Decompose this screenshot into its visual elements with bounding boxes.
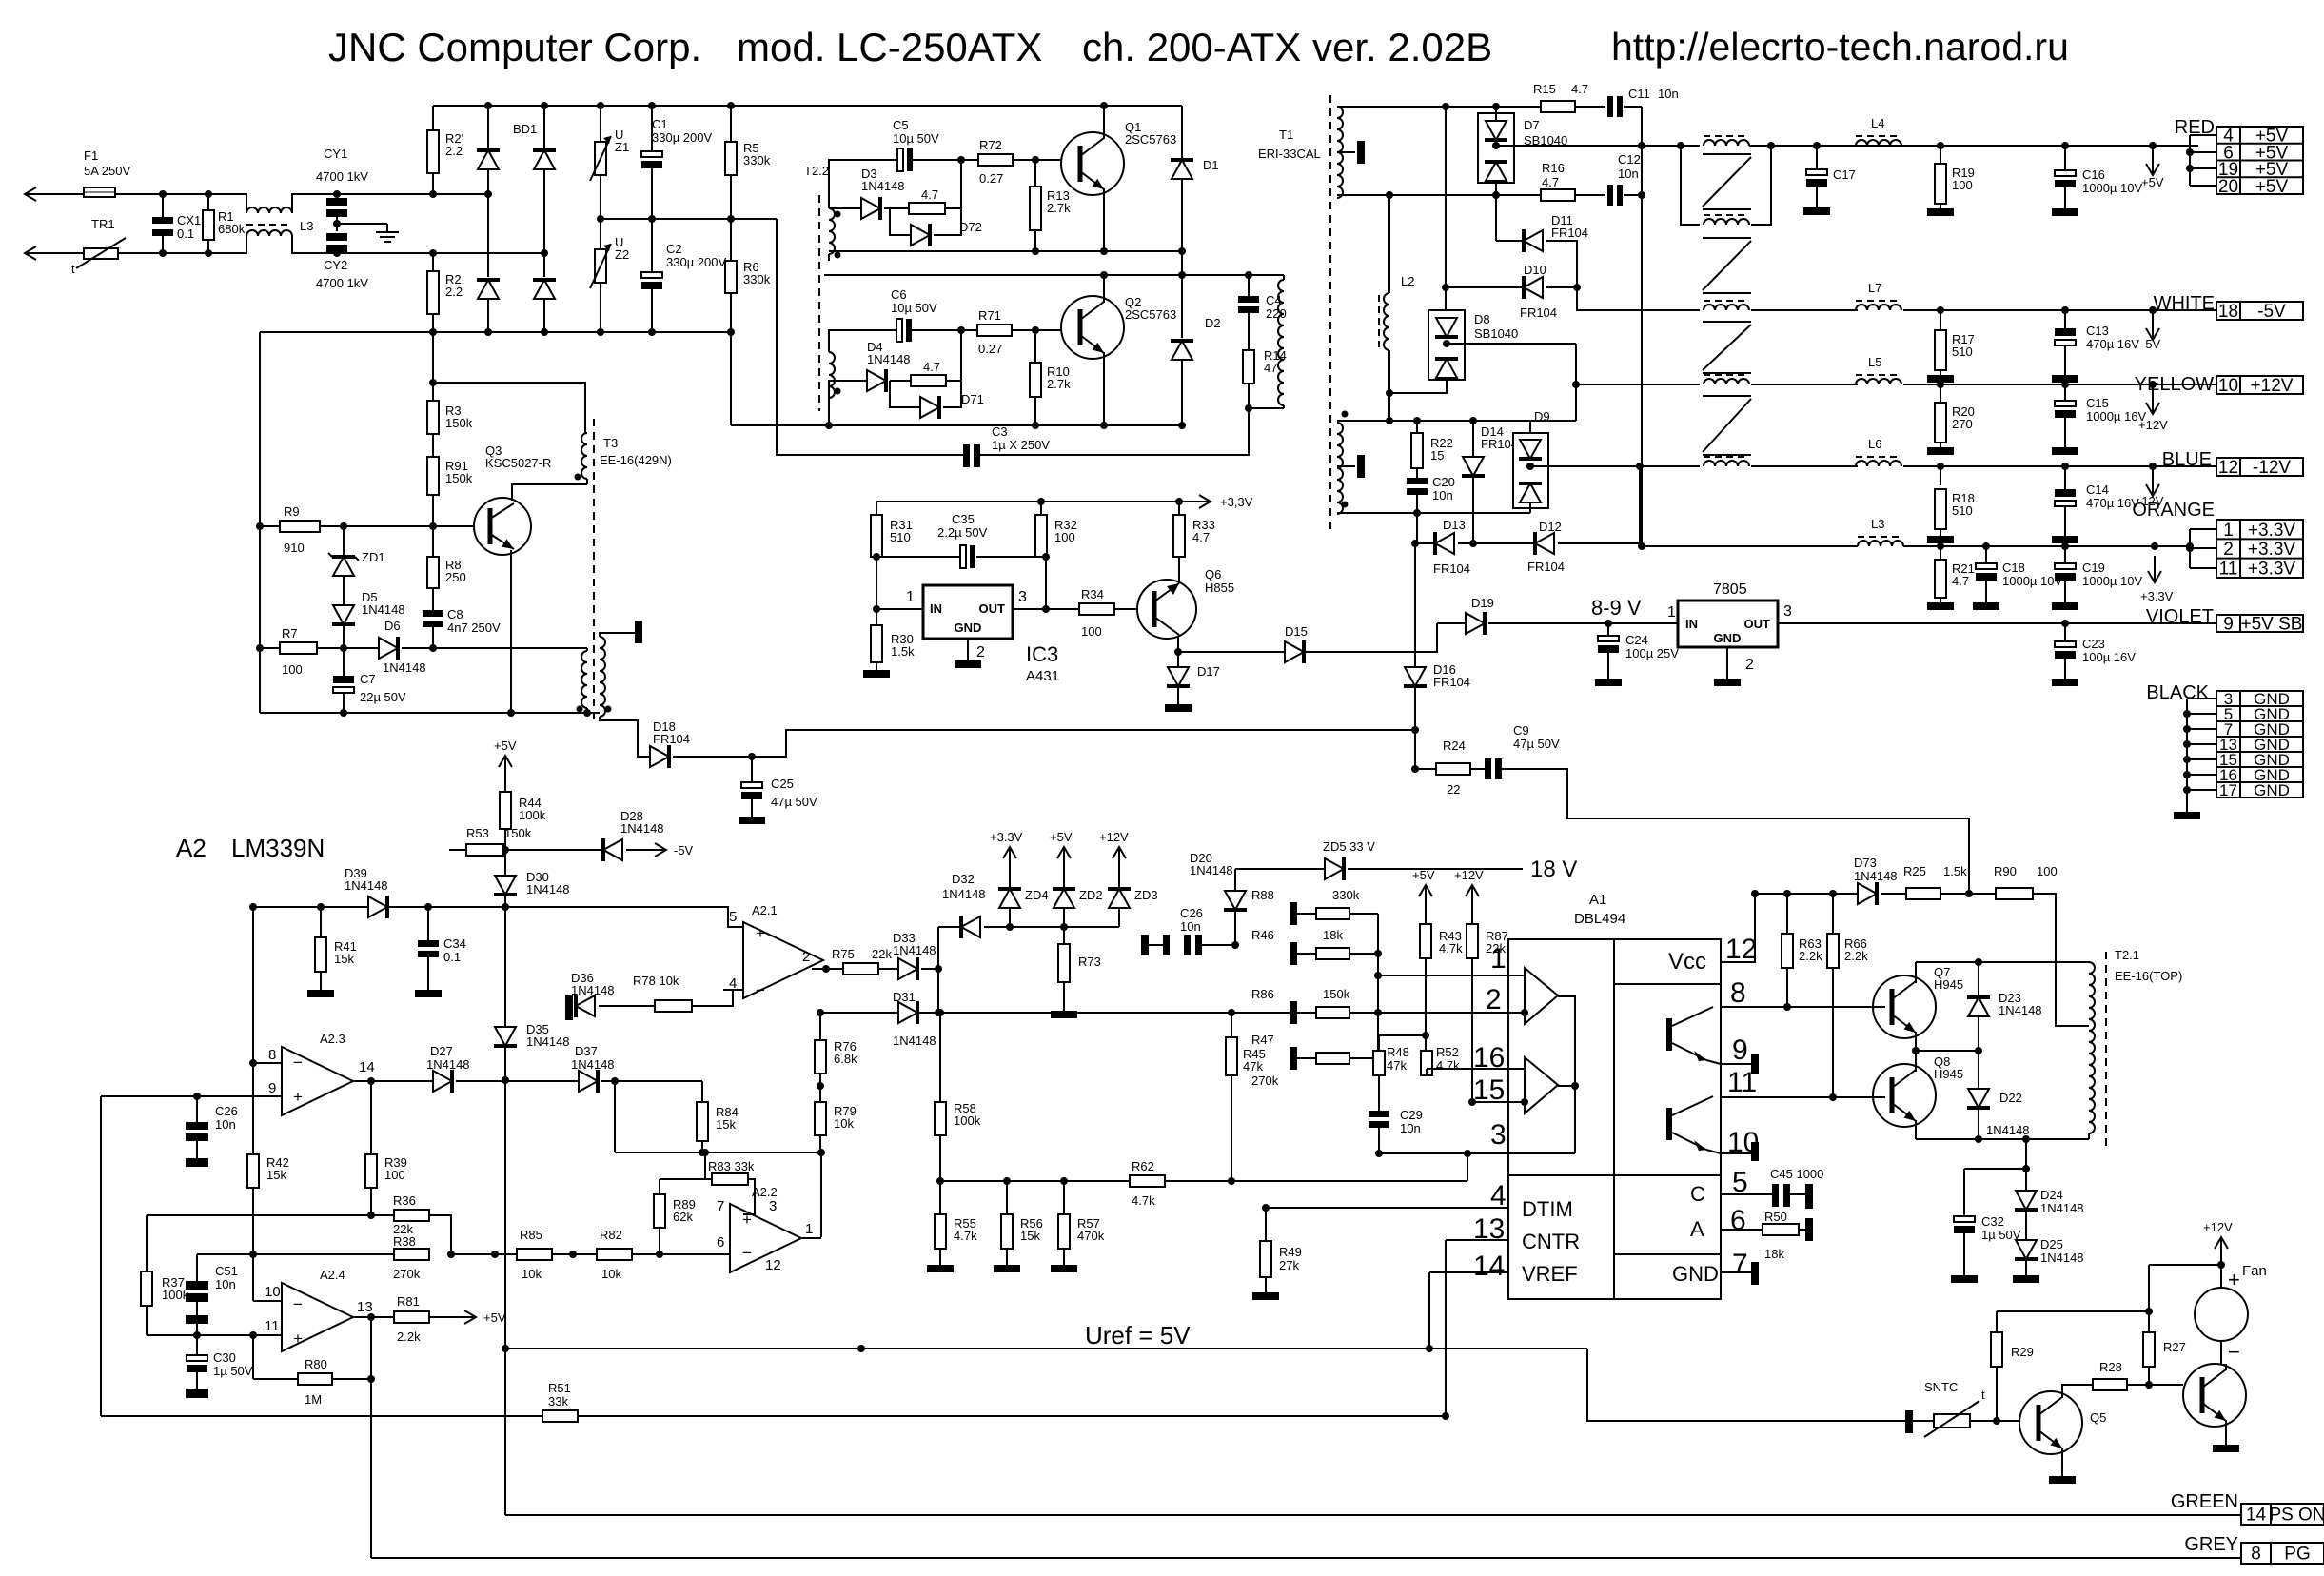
label C2 value xyxy=(666,255,726,269)
fuse F1 xyxy=(84,187,115,197)
wire L2 to D8 xyxy=(1389,380,1447,393)
label C4 xyxy=(1266,293,1282,307)
diode D17 xyxy=(1167,667,1190,686)
terminal bar T1 sec bar xyxy=(1357,141,1365,164)
label C20 value xyxy=(1432,488,1453,502)
resistor R7 xyxy=(280,642,317,654)
svg-text:18: 18 xyxy=(2218,302,2238,322)
svg-text:3: 3 xyxy=(1018,589,1027,605)
label Q1 xyxy=(1125,120,1176,147)
junction bottom bus x513 xyxy=(484,328,492,336)
resistor R30 xyxy=(871,625,882,662)
wire D4 line xyxy=(834,380,867,382)
resistor R83 xyxy=(712,1173,748,1185)
wire C30 top xyxy=(196,1335,198,1355)
label A2.1 pin2 xyxy=(802,949,810,965)
svg-text:1N4148: 1N4148 xyxy=(893,943,936,957)
label IC3 type xyxy=(1026,668,1059,684)
resistor R72 xyxy=(978,154,1013,166)
wire cmp2 in16 stub xyxy=(1508,1068,1525,1070)
resistor R25 xyxy=(1906,888,1940,899)
svg-text:R38: R38 xyxy=(393,1234,416,1249)
label A1 pin 9 xyxy=(1732,1034,1748,1066)
wire R10 bottom xyxy=(1034,397,1036,425)
wire R73 gnd xyxy=(1063,982,1065,1011)
label D18 xyxy=(653,719,690,746)
zener ZD1 tick xyxy=(328,553,359,561)
wire BD1 L mid xyxy=(487,169,489,277)
wire Q9 collector xyxy=(2221,1365,2226,1370)
wire R47 in xyxy=(1297,1057,1316,1059)
label R53 xyxy=(466,826,489,840)
wire R56 top xyxy=(1006,1181,1008,1214)
wire D8 to +12 rail xyxy=(1575,344,1577,421)
junction C7 bottom xyxy=(340,709,347,717)
label C18 xyxy=(2002,561,2025,575)
wire C14 stub xyxy=(2064,466,2066,489)
wire T2.2 lower to bottom xyxy=(828,398,830,425)
diode D24 xyxy=(2015,1191,2038,1210)
resistor R22 xyxy=(1411,433,1423,468)
wire T1 bottom lead xyxy=(1249,407,1284,409)
wire PG line xyxy=(371,1557,2241,1559)
svg-text:D13: D13 xyxy=(1443,518,1466,532)
wire conn bus 3.3 xyxy=(2189,529,2191,568)
svg-text:2.2µ 50V: 2.2µ 50V xyxy=(937,525,988,540)
svg-text:GND: GND xyxy=(1714,631,1742,645)
svg-text:A: A xyxy=(1690,1217,1704,1241)
svg-text:47k: 47k xyxy=(1243,1059,1263,1074)
svg-text:2.2: 2.2 xyxy=(445,285,463,299)
svg-text:14: 14 xyxy=(359,1059,375,1075)
junction R1 bottom xyxy=(205,249,212,257)
wire R2 top xyxy=(432,253,434,271)
junction R83 left xyxy=(701,1149,709,1156)
svg-text:270k: 270k xyxy=(393,1267,421,1281)
resistor R43 xyxy=(1420,924,1431,958)
svg-text:Vcc: Vcc xyxy=(1668,949,1706,975)
wire C15 gnd stub xyxy=(2064,418,2066,447)
junction Uref 905 xyxy=(857,1345,865,1352)
svg-text:R71: R71 xyxy=(978,308,1001,323)
junction drive R10 xyxy=(1032,422,1039,429)
svg-text:+3.3V: +3.3V xyxy=(2248,559,2296,579)
svg-text:1N4148: 1N4148 xyxy=(526,882,570,896)
inductor toroid W4 xyxy=(1704,375,1749,384)
junction D10 right xyxy=(1573,284,1581,291)
resistor R78 xyxy=(655,1000,692,1012)
wire L2 to winding xyxy=(1388,393,1390,421)
wire C19 gnd stub xyxy=(2064,581,2066,602)
label R45 xyxy=(1243,1047,1266,1074)
wire R7 left xyxy=(260,647,280,649)
label D37 xyxy=(575,1044,598,1058)
label R82 value xyxy=(601,1267,621,1281)
svg-text:510: 510 xyxy=(1952,345,1973,359)
polarity dot T2.2 b xyxy=(835,252,841,259)
wire R2' bottom xyxy=(432,173,434,194)
wire 1725 vertical xyxy=(1641,107,1643,546)
label D22 type xyxy=(1986,1123,2030,1137)
wire T3 right bottom xyxy=(600,717,650,757)
wire D22 bottom xyxy=(1978,1108,1979,1139)
wire R27 vert xyxy=(2148,1265,2150,1332)
wire R62 up xyxy=(1467,1153,1468,1181)
svg-text:R29: R29 xyxy=(2011,1345,2034,1359)
wire D2 bottom xyxy=(1181,360,1183,425)
wire R89 top xyxy=(659,1179,660,1194)
diode D10 xyxy=(1524,276,1543,299)
label R56 xyxy=(1020,1216,1043,1243)
label R78 xyxy=(633,974,679,988)
svg-text:270: 270 xyxy=(1952,417,1973,431)
wire C1 top xyxy=(651,106,653,151)
svg-text:L5: L5 xyxy=(1868,355,1881,369)
label A2.4 pin11 xyxy=(265,1318,280,1334)
label C13 xyxy=(2086,324,2109,338)
wire R30 bottom xyxy=(876,662,877,670)
wire sec top line xyxy=(1337,106,1605,108)
label A2.3 pin14 xyxy=(359,1059,375,1075)
label R79 xyxy=(834,1104,857,1131)
wire R46 in xyxy=(1297,953,1316,955)
junction R39 R36 xyxy=(367,1212,375,1219)
svg-text:1: 1 xyxy=(805,1221,813,1237)
svg-text:H855: H855 xyxy=(1205,581,1234,595)
junction 585 right xyxy=(1042,553,1050,561)
svg-text:R47: R47 xyxy=(1251,1033,1274,1047)
wire R88 out xyxy=(1349,913,1378,915)
junction A2.4 out xyxy=(367,1313,375,1321)
label R71 xyxy=(978,308,1002,356)
core dashed T1 core xyxy=(1329,95,1331,533)
svg-text:D9: D9 xyxy=(1534,409,1550,424)
svg-text:100: 100 xyxy=(1081,624,1102,639)
wire +5 after L4 xyxy=(1903,145,2190,147)
wire R75 D33 xyxy=(878,968,898,970)
svg-text:T2.2: T2.2 xyxy=(804,164,829,178)
wire D9 out -12 rail xyxy=(1530,465,1700,467)
junction C19 xyxy=(2061,542,2069,550)
label C19 value xyxy=(2082,574,2142,588)
wire D37 out xyxy=(601,1080,702,1082)
svg-text:ERI-33CAL: ERI-33CAL xyxy=(1258,147,1321,161)
junction 646 1136 xyxy=(611,1077,619,1085)
svg-text:OUT: OUT xyxy=(1744,617,1771,631)
svg-text:SB1040: SB1040 xyxy=(1474,326,1518,341)
svg-text:t: t xyxy=(1981,1388,1985,1402)
wire D1 top xyxy=(1181,106,1183,160)
label C16 value xyxy=(2082,181,2142,195)
svg-text:510: 510 xyxy=(890,530,911,544)
wire D4 to 4.7 xyxy=(890,380,911,382)
label YELLOW xyxy=(2135,374,2214,395)
resistor R55 xyxy=(935,1214,946,1249)
svg-text:0.1: 0.1 xyxy=(177,227,194,241)
svg-text:PS ON: PS ON xyxy=(2269,1506,2324,1526)
label C35 value xyxy=(937,525,988,540)
svg-text:330k: 330k xyxy=(1332,888,1360,902)
svg-text:+5V: +5V xyxy=(1412,868,1435,882)
svg-text:1N4148: 1N4148 xyxy=(1190,863,1233,877)
junction D5 bottom xyxy=(340,644,347,652)
junction 1725 574 xyxy=(1638,542,1645,550)
wire CX1 to R1 top xyxy=(163,193,208,195)
wire gnd stub 2 xyxy=(2187,728,2216,730)
ground C23 ground xyxy=(2052,679,2078,686)
junction R63 top939 xyxy=(1783,890,1791,897)
label D31 xyxy=(893,990,916,1004)
label TR1 xyxy=(91,217,115,231)
junction L2 wind xyxy=(1386,417,1393,424)
wire fan horiz2 xyxy=(1997,1310,2149,1312)
label A2.2 pin12 xyxy=(765,1257,781,1273)
wire R80 line xyxy=(253,1378,298,1380)
wire R5 bottom xyxy=(730,175,732,219)
resistor R44 xyxy=(500,792,511,829)
junction bottom bus x631 xyxy=(597,328,604,336)
wire +12 after L5 xyxy=(1903,384,2216,385)
diode diode BD1c xyxy=(477,280,500,299)
resistor R46 xyxy=(1316,948,1349,959)
svg-text:22µ 50V: 22µ 50V xyxy=(360,690,406,704)
svg-text:47: 47 xyxy=(1264,361,1277,375)
wire +5 rail b xyxy=(1749,145,2198,147)
diode D18 xyxy=(650,745,669,768)
junction drive T22 xyxy=(825,422,833,429)
wire cmp2 in15 stub xyxy=(1508,1101,1525,1103)
label R9 xyxy=(284,504,305,555)
resistor R18 xyxy=(1935,489,1946,529)
label T3 xyxy=(603,436,618,450)
resistor R6 xyxy=(725,261,737,293)
wire C15 stub xyxy=(2064,384,2066,401)
resistor R80 xyxy=(298,1373,332,1385)
connector +5VSB output xyxy=(2216,615,2303,635)
inductor L3 out xyxy=(1858,537,1903,546)
svg-text:TR1: TR1 xyxy=(91,217,115,231)
plus A2.4 xyxy=(293,1330,303,1348)
svg-text:2.2k: 2.2k xyxy=(1844,949,1868,963)
resistor R73 xyxy=(1058,944,1070,982)
svg-text:510: 510 xyxy=(1952,503,1973,518)
wire A2.2 out xyxy=(802,1237,821,1239)
diode D22 xyxy=(1967,1089,1990,1108)
svg-text:PG: PG xyxy=(2284,1545,2310,1565)
junction fan top xyxy=(2217,1261,2225,1269)
svg-text:11: 11 xyxy=(2219,559,2238,579)
junction 289 C4 xyxy=(1245,271,1252,279)
svg-text:ZD3: ZD3 xyxy=(1134,888,1158,902)
diode D27 xyxy=(433,1070,452,1093)
label R84 xyxy=(716,1105,739,1132)
wire C11 to corner xyxy=(1624,106,1642,108)
svg-text:-5V: -5V xyxy=(674,843,694,857)
wire R37 bottom xyxy=(146,1306,148,1335)
diode diode BD1b xyxy=(533,150,556,169)
wire 4.7L to junction xyxy=(946,330,961,381)
wire T3 upper top xyxy=(433,383,585,433)
zener ZD5 label xyxy=(1323,839,1375,854)
svg-text:15k: 15k xyxy=(266,1168,286,1182)
wire CX1 stub bottom xyxy=(162,236,164,253)
svg-text:R86: R86 xyxy=(1251,987,1274,1001)
svg-text:BLACK: BLACK xyxy=(2146,682,2209,703)
wire Q3 emitter xyxy=(510,550,512,713)
svg-text:D2: D2 xyxy=(1205,316,1221,330)
wire C32 link xyxy=(1964,1168,2026,1170)
junction R2 AC xyxy=(429,249,437,257)
label R29 xyxy=(2011,1345,2034,1359)
wire D22 drop xyxy=(1978,1051,1979,1089)
wire Z2 bottom xyxy=(600,283,601,332)
ground C15 ground xyxy=(2052,447,2078,455)
label A1 pin 7 xyxy=(1732,1249,1748,1280)
junction 1197 D22 xyxy=(1975,1135,1982,1143)
inductor T1 primary xyxy=(1278,280,1284,405)
label R36 value xyxy=(393,1222,413,1236)
label R30 xyxy=(891,632,915,659)
svg-text:FR104: FR104 xyxy=(1527,560,1565,574)
svg-text:CX1: CX1 xyxy=(177,213,201,227)
inductor T3 winding lowerleft xyxy=(581,651,587,708)
svg-text:100: 100 xyxy=(384,1168,405,1182)
junction 1197 D24 xyxy=(2022,1135,2030,1143)
wire Q6 emitter xyxy=(1177,636,1179,652)
label R51 value xyxy=(548,1394,568,1409)
junction 1487 top xyxy=(1411,540,1419,547)
junction D10 left xyxy=(1442,284,1449,291)
wire D73 line xyxy=(1755,893,1858,895)
svg-text:10n: 10n xyxy=(1432,488,1453,502)
label A1 type xyxy=(1574,911,1625,927)
svg-text:4.7: 4.7 xyxy=(1571,82,1588,96)
label A2.4 pin10 xyxy=(265,1284,281,1300)
polarity dot T1 b xyxy=(1342,502,1349,508)
svg-text:CY2: CY2 xyxy=(324,258,347,272)
wire 7805 gnd xyxy=(1726,647,1728,679)
arrow +5V arrow xyxy=(2146,146,2159,175)
op-amp A2.3 xyxy=(282,1047,353,1115)
label C12 value xyxy=(1618,167,1639,181)
wire C18 gnd stub xyxy=(1985,581,1987,602)
junction R39 top xyxy=(367,1077,375,1085)
wire pin13 drop xyxy=(1445,1240,1447,1416)
wire cmp2 out xyxy=(1558,1085,1575,1087)
label D4 xyxy=(867,340,911,366)
label D10 type xyxy=(1520,305,1557,320)
junction R56 top xyxy=(1003,1177,1011,1185)
resistor R48 xyxy=(1373,1051,1385,1075)
label D32 type xyxy=(942,887,986,901)
svg-text:47k: 47k xyxy=(1387,1058,1407,1073)
junction 289 Q2 xyxy=(1100,271,1108,279)
inductor T2.2 winding lower xyxy=(829,352,835,398)
capacitor C1 xyxy=(641,151,662,168)
label R28 xyxy=(2099,1360,2122,1374)
junction C24 xyxy=(1605,620,1612,627)
ground R49 ground xyxy=(1252,1292,1279,1300)
svg-text:R49: R49 xyxy=(1279,1245,1302,1259)
label A2.1 xyxy=(752,903,778,917)
label R5 xyxy=(743,141,771,167)
svg-text:14: 14 xyxy=(1473,1251,1505,1282)
label R 4.7 lower xyxy=(923,360,940,374)
wire Q5 emitter xyxy=(2061,1448,2063,1476)
junction cmp2 in15 xyxy=(1521,1098,1528,1106)
svg-text:R78 10k: R78 10k xyxy=(633,974,679,988)
svg-text:R88: R88 xyxy=(1251,888,1274,902)
resistor R52 xyxy=(1421,1051,1432,1075)
junction emitter R13 xyxy=(1032,247,1039,255)
svg-text:R9: R9 xyxy=(284,504,300,519)
wire R86 out xyxy=(1349,1012,1378,1014)
svg-text:33k: 33k xyxy=(548,1394,568,1409)
junction top bus x631 xyxy=(597,102,604,109)
wire R32 link xyxy=(1045,557,1047,609)
wire R1 to L3 top xyxy=(208,194,246,213)
wire R58 bottom xyxy=(939,1135,941,1181)
core dashed T3 core xyxy=(593,419,595,725)
label D39 xyxy=(345,866,388,893)
transistor A1 Q internal bottom xyxy=(1666,1096,1721,1153)
svg-text:-5V: -5V xyxy=(2257,302,2286,322)
svg-text:CY1: CY1 xyxy=(324,147,347,161)
wire C14 gnd stub xyxy=(2064,506,2066,536)
label IC3 pin3 xyxy=(1018,589,1027,605)
label L6 xyxy=(1868,437,1881,451)
junction ZD2 xyxy=(1060,923,1068,931)
svg-text:−: − xyxy=(756,981,765,999)
label A1 pin 13 xyxy=(1473,1213,1505,1245)
wire R88 in xyxy=(1297,913,1316,915)
label Q5 xyxy=(2090,1410,2106,1425)
wire base line xyxy=(260,525,433,527)
svg-text:1N4148: 1N4148 xyxy=(867,352,911,366)
wire conn stub 3.3 576 xyxy=(2190,547,2216,549)
label C23 xyxy=(2082,637,2105,651)
svg-text:+5V: +5V xyxy=(1050,830,1073,844)
op-amp A2.1 xyxy=(743,922,823,998)
resistor R63 xyxy=(1782,934,1793,968)
resistor R29 xyxy=(1991,1332,2002,1367)
svg-text:+5V: +5V xyxy=(483,1310,506,1325)
label D20 xyxy=(1190,851,1233,877)
label 7805 pin2 xyxy=(1745,657,1754,673)
wire A2.1 out xyxy=(812,968,843,970)
wire D36 R78 xyxy=(599,1005,655,1007)
resistor R84 xyxy=(697,1102,708,1141)
inductor T1 sec lower xyxy=(1337,423,1343,514)
wire Q9 emitter xyxy=(2225,1420,2227,1445)
label A2.4 xyxy=(320,1268,345,1282)
svg-text:R48: R48 xyxy=(1387,1045,1409,1059)
label VREF xyxy=(1522,1262,1578,1286)
wire CY1 to mid xyxy=(336,217,338,231)
wire R57 gnd xyxy=(1063,1249,1065,1265)
wire C29 bottom xyxy=(1378,1128,1380,1153)
wire pin14 wire xyxy=(1429,1271,1508,1273)
wire AC top left xyxy=(25,193,84,195)
svg-text:4.7k: 4.7k xyxy=(1132,1193,1155,1208)
wire R48 top xyxy=(1378,1035,1380,1051)
inductor T3 winding upper xyxy=(581,433,587,479)
label GREY xyxy=(2184,1534,2238,1555)
wire -5 after L7 xyxy=(1903,309,2216,311)
diode diode BD1d xyxy=(533,280,556,299)
junction IC3 in xyxy=(873,605,880,613)
svg-text:+12V: +12V xyxy=(2138,418,2168,432)
